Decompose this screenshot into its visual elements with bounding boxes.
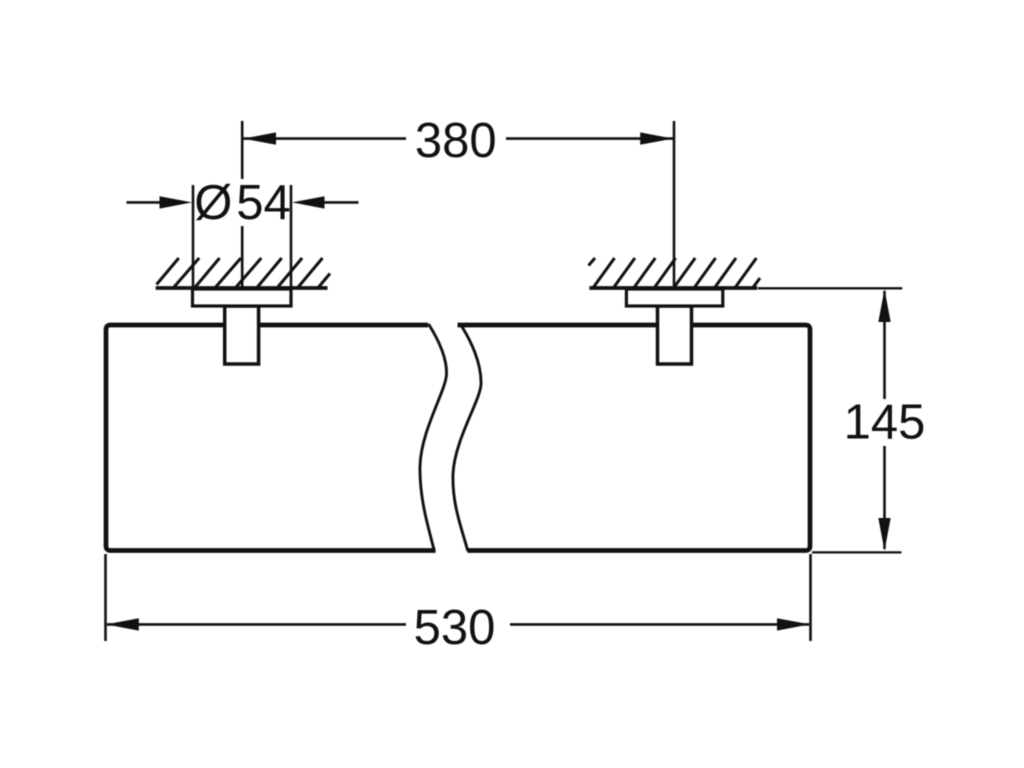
svg-text:145: 145 (844, 396, 926, 450)
dimension D54 right arrow (322, 201, 359, 204)
dimension 380 line (243, 137, 673, 140)
dimension D54 left arrow (127, 201, 163, 204)
right bracket plate (626, 289, 722, 306)
dimension 145 top arrow (878, 289, 890, 322)
svg-text:54: 54 (236, 176, 291, 230)
centerline left bracket (241, 121, 244, 289)
dimension 145 line (883, 291, 886, 549)
left bracket post (225, 306, 259, 364)
centerline right bracket (673, 121, 676, 289)
dimension 530 extension line right (809, 554, 812, 641)
svg-text:530: 530 (414, 601, 496, 655)
dimension 530 line (107, 623, 809, 626)
svg-text:Ø: Ø (194, 176, 232, 230)
dimension 380 left arrow (243, 132, 276, 144)
dimension 530 right arrow (777, 618, 810, 630)
dimension 145 extension line top (758, 287, 902, 289)
dimension 380 right arrow (640, 132, 673, 144)
right bracket post (658, 306, 692, 364)
dimension D54 extension line right (290, 185, 293, 288)
wall hatching right baseline (589, 286, 757, 290)
dimension D54 extension line left (192, 185, 195, 288)
dimension 145 bottom arrow (878, 518, 890, 551)
shelf outline (glass shelf, broken view) (106, 325, 810, 551)
wall hatching left baseline (156, 286, 328, 290)
wall hatching right strokes (589, 258, 761, 289)
dimension 530 extension line left (104, 554, 107, 641)
left bracket plate (193, 289, 292, 306)
dimension 145 extension line bottom (812, 551, 902, 553)
break line right (453, 326, 481, 551)
wall hatching left strokes (157, 258, 331, 289)
break line left (420, 324, 447, 551)
dimension 530 left arrow (106, 618, 139, 630)
svg-text:380: 380 (415, 114, 497, 168)
